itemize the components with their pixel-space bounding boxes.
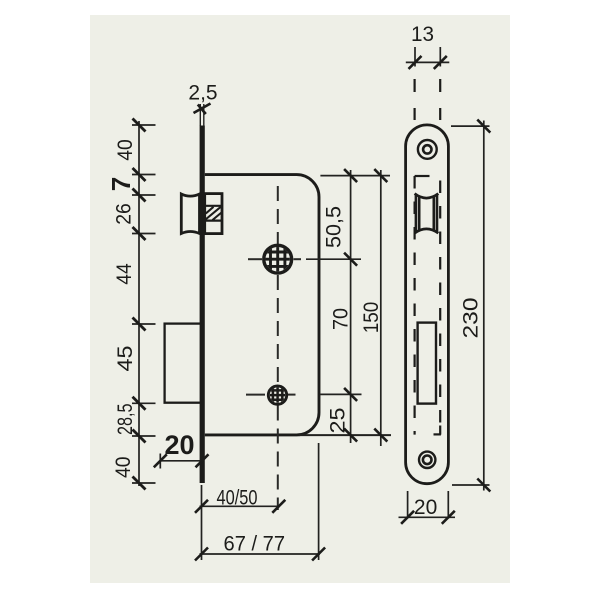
- svg-text:150: 150: [360, 302, 383, 334]
- svg-text:40/50: 40/50: [217, 487, 258, 510]
- svg-text:70: 70: [329, 308, 352, 330]
- svg-text:45: 45: [114, 346, 137, 372]
- svg-text:44: 44: [113, 263, 136, 285]
- svg-text:26: 26: [113, 203, 136, 225]
- svg-text:50,5: 50,5: [323, 206, 346, 248]
- svg-text:40: 40: [112, 457, 135, 479]
- svg-text:25: 25: [326, 408, 349, 434]
- svg-text:2,5: 2,5: [188, 82, 217, 105]
- svg-text:13: 13: [411, 23, 434, 46]
- svg-text:230: 230: [459, 298, 482, 339]
- svg-text:28,5: 28,5: [114, 404, 137, 436]
- svg-text:20: 20: [164, 430, 194, 460]
- svg-text:67 / 77: 67 / 77: [224, 533, 286, 556]
- svg-text:7: 7: [106, 177, 136, 191]
- svg-text:40: 40: [114, 139, 137, 161]
- svg-text:20: 20: [414, 496, 437, 519]
